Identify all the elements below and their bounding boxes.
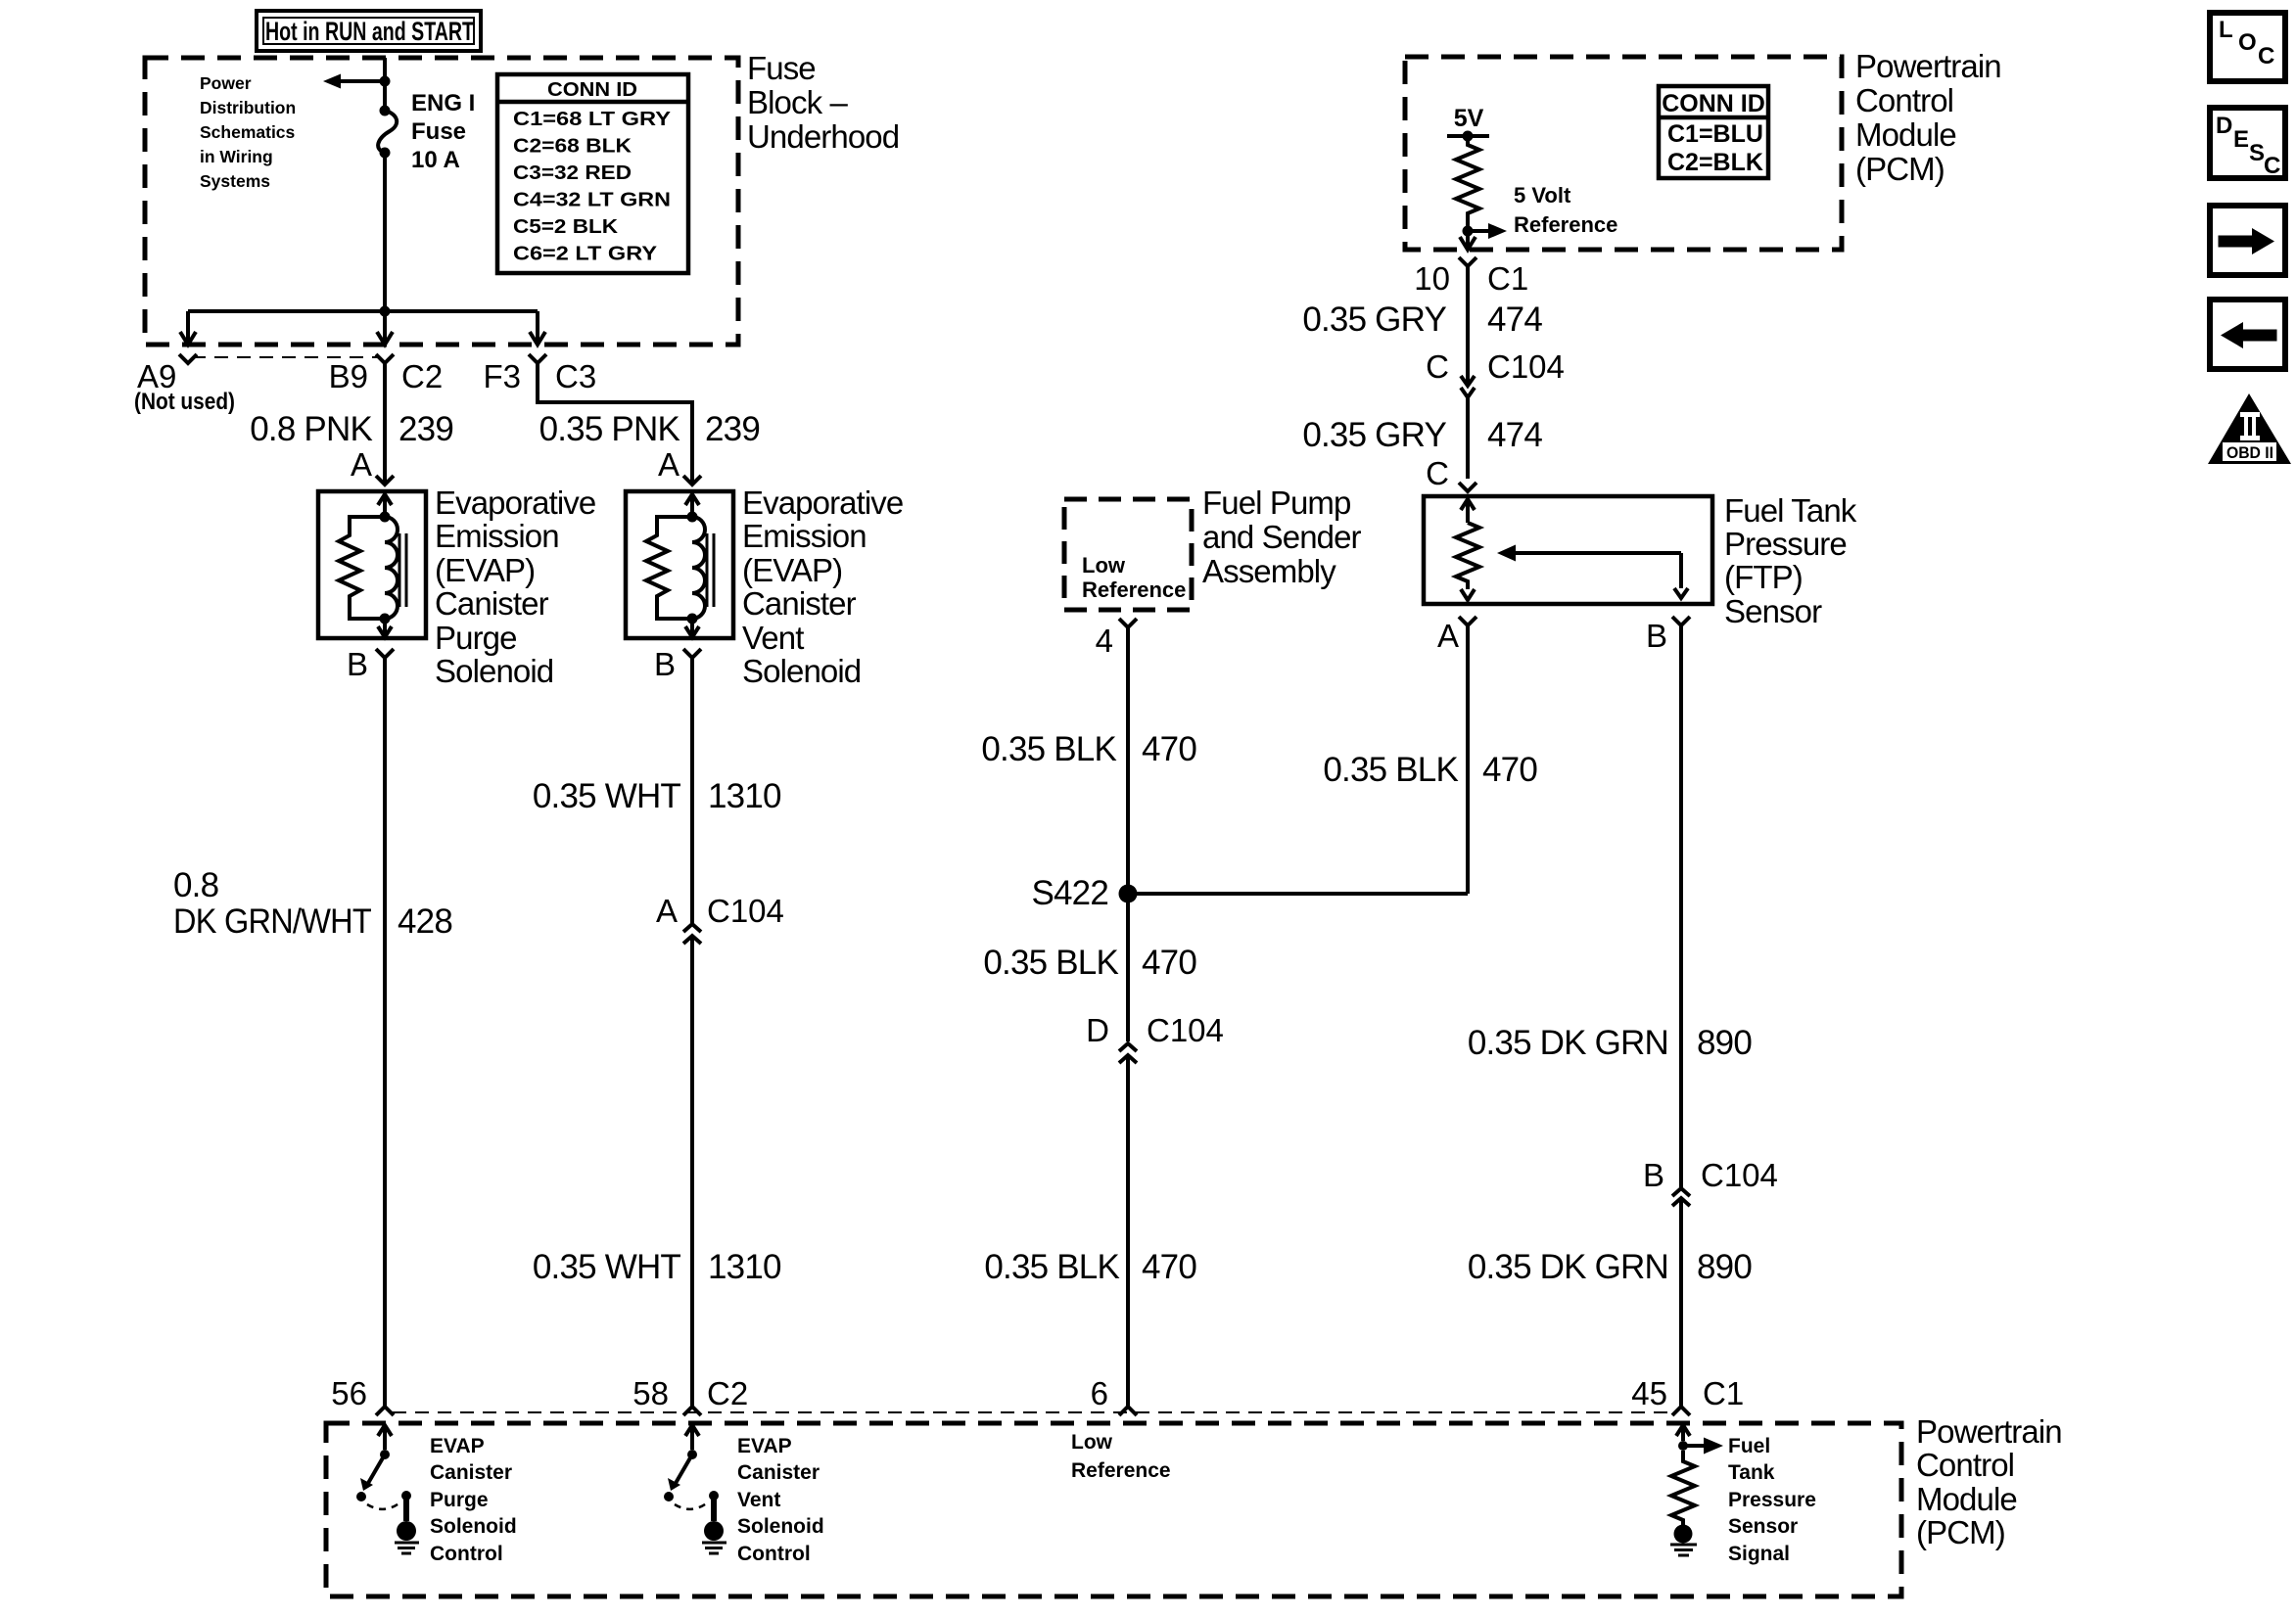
svg-text:Canister: Canister <box>742 585 857 622</box>
svg-text:C104: C104 <box>1701 1157 1778 1193</box>
label Fuel Tank Pressure Sensor Signal <box>1728 1435 1816 1565</box>
connector pin B FTP sensor <box>1672 617 1690 625</box>
svg-text:Fuse: Fuse <box>411 118 466 145</box>
connector pin A FTP sensor <box>1459 617 1476 625</box>
svg-text:Purge: Purge <box>430 1489 489 1511</box>
FTP sensor internal arrow down <box>1461 589 1475 600</box>
svg-text:6: 6 <box>1091 1375 1108 1411</box>
svg-text:0.35 GRY: 0.35 GRY <box>1302 300 1446 339</box>
svg-text:239: 239 <box>705 410 760 448</box>
label Powertrain Control Module (PCM) bottom <box>1916 1413 2062 1550</box>
icon LOC box <box>2210 13 2285 81</box>
svg-text:Powertrain: Powertrain <box>1916 1413 2062 1450</box>
connector pin 4 fuel pump <box>1119 619 1137 627</box>
svg-text:S: S <box>2249 140 2265 166</box>
svg-text:C: C <box>1426 348 1449 385</box>
wire 0.35 WHT 1310 vent control lower <box>690 936 694 1407</box>
svg-text:C3=32 RED: C3=32 RED <box>513 162 632 184</box>
wire 0.35 GRY 474 upper <box>1466 266 1470 384</box>
connector B9 of C2 <box>376 354 394 363</box>
svg-text:Block –: Block – <box>747 84 848 120</box>
svg-text:Systems: Systems <box>200 171 270 191</box>
junction fuse output splice <box>380 306 391 317</box>
svg-text:in Wiring: in Wiring <box>200 147 273 166</box>
arrowhead into B9 <box>377 332 393 345</box>
junction hot feed / power distribution tap <box>380 76 391 87</box>
label ENG I Fuse 10 A <box>411 90 475 173</box>
wire 5V ref to pin 10 <box>1466 231 1470 237</box>
wire 0.35 DK GRN 890 lower <box>1679 1198 1683 1407</box>
FTP sensor wiper feedback arrow <box>1497 545 1688 599</box>
svg-text:C1=BLU: C1=BLU <box>1667 120 1763 148</box>
wire 0.35 PNK 239 to vent solenoid <box>538 363 692 485</box>
svg-text:Low: Low <box>1071 1431 1113 1454</box>
connector line across PCM pins <box>393 1411 1673 1413</box>
arrow to power distribution <box>323 74 385 89</box>
svg-text:Module: Module <box>1916 1481 2017 1517</box>
svg-text:239: 239 <box>398 410 453 448</box>
svg-text:890: 890 <box>1697 1248 1752 1286</box>
connector C104 pin D <box>1119 1043 1137 1063</box>
connector pin A purge solenoid <box>376 476 394 485</box>
5V supply <box>1447 105 1489 142</box>
connector pin 45 PCM <box>1672 1407 1690 1415</box>
connector pin B purge solenoid <box>376 649 394 658</box>
driver Q2 EVAP canister vent solenoid control w/ ground <box>664 1425 726 1553</box>
label Low Reference PCM <box>1071 1431 1171 1482</box>
svg-text:CONN ID: CONN ID <box>1662 90 1765 117</box>
svg-text:0.35 WHT: 0.35 WHT <box>533 777 681 815</box>
svg-text:0.35 DK GRN: 0.35 DK GRN <box>1468 1248 1668 1286</box>
svg-text:O: O <box>2238 29 2257 56</box>
svg-text:Schematics: Schematics <box>200 122 296 142</box>
svg-text:A: A <box>1437 618 1459 654</box>
icon arrow right box <box>2210 206 2285 275</box>
svg-text:Tank: Tank <box>1728 1461 1775 1484</box>
svg-text:OBD II: OBD II <box>2226 443 2273 462</box>
svg-text:Control: Control <box>1855 82 1953 118</box>
svg-text:EVAP: EVAP <box>430 1435 485 1457</box>
driver Q1 EVAP canister purge solenoid control w/ ground <box>356 1425 419 1553</box>
svg-text:C2=68 BLK: C2=68 BLK <box>513 136 633 158</box>
note Power Distribution Schematics in Wiring Systems <box>200 73 296 191</box>
label Powertrain Control Module (PCM) top <box>1855 48 2001 187</box>
svg-text:Canister: Canister <box>430 1461 512 1484</box>
svg-text:B: B <box>1646 618 1667 654</box>
svg-text:Powertrain: Powertrain <box>1855 48 2001 84</box>
svg-text:470: 470 <box>1142 944 1196 982</box>
wire fuse output <box>383 153 387 311</box>
arrowhead into F3 <box>530 332 545 345</box>
svg-text:0.35 GRY: 0.35 GRY <box>1302 416 1446 454</box>
svg-text:Vent: Vent <box>737 1489 780 1511</box>
svg-text:0.35 BLK: 0.35 BLK <box>983 944 1118 982</box>
svg-text:(Not used): (Not used) <box>134 389 235 415</box>
note 5 Volt Reference <box>1514 183 1617 237</box>
connector pin A vent solenoid <box>683 476 701 485</box>
svg-text:C5=2 BLK: C5=2 BLK <box>513 216 619 238</box>
svg-text:0.35 BLK: 0.35 BLK <box>981 730 1116 768</box>
svg-text:4: 4 <box>1096 623 1113 659</box>
FTP sensor internal arrow up <box>1461 499 1475 523</box>
wire hot feed into fuse block <box>383 58 387 112</box>
wire 0.35 BLK 470 FTP low ref <box>1466 625 1470 894</box>
svg-text:0.35 DK GRN: 0.35 DK GRN <box>1468 1024 1668 1062</box>
svg-text:(EVAP): (EVAP) <box>742 552 842 588</box>
svg-text:470: 470 <box>1142 730 1196 768</box>
wire 0.35 BLK 470 from pump <box>1126 627 1130 894</box>
svg-text:0.35 BLK: 0.35 BLK <box>984 1248 1119 1286</box>
wire 0.35 DK GRN 890 upper <box>1679 625 1683 1187</box>
label Fuel Pump and Sender Assembly <box>1202 485 1362 589</box>
svg-text:Pressure: Pressure <box>1728 1489 1816 1511</box>
svg-text:Sensor: Sensor <box>1724 593 1822 629</box>
svg-text:F3: F3 <box>483 358 521 394</box>
svg-text:(EVAP): (EVAP) <box>435 552 535 588</box>
CONN ID table fuse block <box>497 74 688 273</box>
wire branch A9 <box>186 311 190 332</box>
fuse F ENG I 10 A <box>378 106 397 159</box>
svg-text:C3: C3 <box>555 358 596 394</box>
svg-text:Reference: Reference <box>1082 577 1186 602</box>
svg-text:C1: C1 <box>1703 1375 1744 1411</box>
svg-text:Emission: Emission <box>742 518 867 554</box>
svg-text:Underhood: Underhood <box>747 118 899 155</box>
connector A9 (not used) <box>179 354 197 363</box>
wire 0.35 BLK 470 to PCM pin 6 <box>1126 1055 1130 1407</box>
arrowhead into A9 <box>180 332 196 345</box>
wire bus to A9 B9 F3 <box>188 309 538 313</box>
svg-text:Reference: Reference <box>1071 1459 1171 1482</box>
svg-text:Purge: Purge <box>435 620 517 656</box>
svg-text:Hot in RUN and START: Hot in RUN and START <box>265 17 474 46</box>
svg-text:C1=68 LT GRY: C1=68 LT GRY <box>513 109 672 130</box>
svg-text:E: E <box>2233 126 2249 153</box>
svg-text:C2=BLK: C2=BLK <box>1667 149 1763 176</box>
connector pin C FTP sensor <box>1459 483 1476 491</box>
svg-text:10: 10 <box>1414 260 1450 297</box>
solenoid L1 EVAP canister purge solenoid <box>318 491 426 638</box>
wire 0.35 WHT 1310 vent control upper <box>690 658 694 923</box>
svg-text:Distribution: Distribution <box>200 98 296 117</box>
svg-text:S422: S422 <box>1031 874 1108 912</box>
svg-text:Control: Control <box>430 1543 503 1565</box>
label EVAP Canister Purge Solenoid <box>435 485 595 689</box>
svg-text:C104: C104 <box>1487 348 1565 385</box>
svg-text:EVAP: EVAP <box>737 1435 792 1457</box>
svg-text:Low: Low <box>1082 553 1126 577</box>
wire 0.8 DK GRN/WHT 428 purge control <box>383 658 387 1407</box>
connector pin 10 C1 <box>1459 257 1476 266</box>
resistor pull-up in PCM <box>1456 136 1479 231</box>
wire 0.8 PNK 239 to purge solenoid <box>383 363 387 485</box>
svg-text:470: 470 <box>1142 1248 1196 1286</box>
svg-text:Evaporative: Evaporative <box>742 485 903 521</box>
svg-text:Control: Control <box>737 1543 811 1565</box>
connector F3 of C3 <box>529 354 546 363</box>
icon arrow left box <box>2210 300 2285 369</box>
svg-text:0.35 WHT: 0.35 WHT <box>533 1248 681 1286</box>
solenoid L2 EVAP canister vent solenoid <box>626 491 733 638</box>
fuel pump and sender assembly dashed box <box>1064 499 1192 610</box>
svg-text:Fuel Pump: Fuel Pump <box>1202 485 1350 521</box>
svg-text:890: 890 <box>1697 1024 1752 1062</box>
svg-text:Evaporative: Evaporative <box>435 485 595 521</box>
svg-text:58: 58 <box>633 1375 669 1411</box>
connector C104 pin A <box>683 924 701 944</box>
connector pin B vent solenoid <box>683 649 701 658</box>
svg-text:C2: C2 <box>401 358 443 394</box>
svg-text:0.8 PNK: 0.8 PNK <box>250 410 372 448</box>
power label box "Hot in RUN and START" <box>257 11 481 51</box>
driver Q2 EVAP canister vent solenoid control w/ ground label <box>737 1435 824 1565</box>
svg-text:5V: 5V <box>1454 105 1484 132</box>
wire S422 to FTP pin A branch <box>1128 892 1468 896</box>
svg-text:5 Volt: 5 Volt <box>1514 183 1571 208</box>
svg-text:Canister: Canister <box>737 1461 820 1484</box>
svg-text:C2: C2 <box>707 1375 748 1411</box>
svg-text:Fuse: Fuse <box>747 50 816 86</box>
svg-text:ENG I: ENG I <box>411 90 475 116</box>
arrow 5 volt reference <box>1468 223 1507 239</box>
label Fuse Block - Underhood <box>747 50 899 155</box>
splice S422 <box>1119 885 1138 903</box>
svg-text:Power: Power <box>200 73 252 93</box>
svg-text:C6=2 LT GRY: C6=2 LT GRY <box>513 244 658 265</box>
svg-text:45: 45 <box>1631 1375 1667 1411</box>
svg-text:C: C <box>2264 153 2280 179</box>
svg-text:474: 474 <box>1487 300 1542 339</box>
fuse block - underhood dashed box <box>145 58 738 345</box>
connector pin 56 PCM <box>376 1407 394 1415</box>
connector pin 6 PCM <box>1119 1407 1137 1415</box>
svg-text:CONN ID: CONN ID <box>547 79 637 101</box>
svg-text:0.35 PNK: 0.35 PNK <box>539 410 680 448</box>
svg-text:A: A <box>656 893 678 929</box>
svg-text:A: A <box>658 446 679 483</box>
svg-text:Reference: Reference <box>1514 212 1617 237</box>
CONN ID table PCM <box>1659 86 1768 178</box>
svg-text:Canister: Canister <box>435 585 549 622</box>
svg-text:Assembly: Assembly <box>1202 553 1336 589</box>
svg-text:(FTP): (FTP) <box>1724 559 1803 595</box>
icon OBD II triangle <box>2208 393 2291 464</box>
FTP sensor signal input w/ pull resistor and ground <box>1670 1425 1723 1555</box>
svg-text:B: B <box>654 646 676 682</box>
FTP sensor resistor <box>1456 523 1479 589</box>
fuel tank pressure sensor box <box>1424 496 1712 604</box>
svg-text:Vent: Vent <box>742 620 804 656</box>
svg-text:Solenoid: Solenoid <box>435 653 553 689</box>
svg-text:(PCM): (PCM) <box>1916 1514 2005 1550</box>
connector C104 pin C <box>1461 376 1475 397</box>
svg-text:D: D <box>1086 1012 1109 1048</box>
svg-text:L: L <box>2219 17 2233 43</box>
label Fuel Tank Pressure (FTP) Sensor <box>1724 492 1857 629</box>
svg-text:1310: 1310 <box>708 1248 781 1286</box>
svg-text:1310: 1310 <box>708 777 781 815</box>
driver Q1 EVAP canister purge solenoid control w/ ground label <box>430 1435 517 1565</box>
svg-text:C104: C104 <box>1147 1012 1224 1048</box>
svg-text:C: C <box>2258 43 2274 69</box>
svg-text:Fuel Tank: Fuel Tank <box>1724 492 1857 529</box>
svg-text:Module: Module <box>1855 116 1956 153</box>
svg-text:Emission: Emission <box>435 518 559 554</box>
junction 5 volt reference tap <box>1463 226 1474 237</box>
svg-text:Signal: Signal <box>1728 1543 1790 1565</box>
svg-text:D: D <box>2216 113 2232 139</box>
svg-text:and Sender: and Sender <box>1202 519 1362 555</box>
label EVAP Canister Vent Solenoid <box>742 485 903 689</box>
arrowhead at PCM pin 10 <box>1460 237 1476 250</box>
powertrain control module bottom dashed box <box>326 1423 1901 1596</box>
label Low Reference fuel pump <box>1082 553 1186 602</box>
svg-text:B9: B9 <box>329 358 368 394</box>
svg-text:470: 470 <box>1482 751 1537 789</box>
svg-text:Solenoid: Solenoid <box>430 1515 517 1538</box>
connector pin 58 PCM <box>683 1407 701 1415</box>
svg-text:B: B <box>347 646 368 682</box>
svg-text:C4=32 LT GRN: C4=32 LT GRN <box>513 190 671 211</box>
svg-text:Pressure: Pressure <box>1724 526 1847 562</box>
svg-text:DK GRN/WHT: DK GRN/WHT <box>173 902 371 941</box>
svg-text:10 A: 10 A <box>411 147 460 173</box>
svg-text:Control: Control <box>1916 1447 2014 1483</box>
svg-text:0.35 BLK: 0.35 BLK <box>1323 751 1458 789</box>
svg-text:(PCM): (PCM) <box>1855 151 1945 187</box>
svg-text:Solenoid: Solenoid <box>737 1515 824 1538</box>
svg-text:C: C <box>1426 455 1449 491</box>
svg-text:428: 428 <box>398 902 452 941</box>
wire branch B9 <box>383 311 387 332</box>
svg-text:474: 474 <box>1487 416 1542 454</box>
svg-text:A: A <box>351 446 372 483</box>
svg-text:56: 56 <box>331 1375 367 1411</box>
svg-text:Solenoid: Solenoid <box>742 653 861 689</box>
connector line A9-B9 (not used) <box>192 356 378 358</box>
svg-text:Fuel: Fuel <box>1728 1435 1770 1457</box>
icon DESC box <box>2210 108 2285 179</box>
wire 0.35 GRY 474 lower <box>1466 397 1470 479</box>
svg-text:0.8: 0.8 <box>173 866 218 904</box>
svg-text:B: B <box>1643 1157 1664 1193</box>
wire branch F3 <box>536 311 539 332</box>
powertrain control module top dashed box <box>1405 57 1842 250</box>
wire 0.35 BLK 470 below S422 <box>1126 894 1130 1041</box>
svg-text:C104: C104 <box>707 893 784 929</box>
svg-text:Sensor: Sensor <box>1728 1515 1798 1538</box>
connector C104 pin B <box>1672 1188 1690 1206</box>
svg-text:C1: C1 <box>1487 260 1528 297</box>
